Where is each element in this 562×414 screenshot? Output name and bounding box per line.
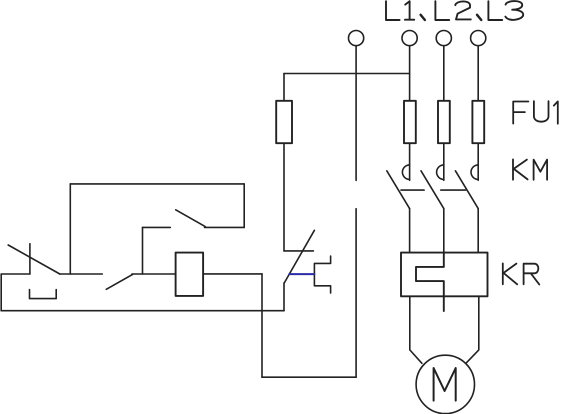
- label KM: [513, 159, 547, 179]
- label FU1: [513, 101, 558, 124]
- wire holding branch riser: [69, 184, 71, 274]
- wire pole3 KR to motor: [466, 296, 479, 363]
- wire holding branch right drop: [243, 184, 245, 228]
- KM linkage dash 2: [441, 189, 466, 191]
- wire phase L1 vertical to fuse: [409, 46, 411, 101]
- motor M1 circle: [416, 355, 474, 413]
- control fuse: [276, 101, 292, 143]
- stop button actuator bracket: [30, 290, 57, 299]
- wire control supply horizontal: [284, 73, 410, 75]
- contact KM pole 1 hook: [402, 165, 409, 180]
- contact KM pole 1 blade: [387, 171, 410, 209]
- wire bottom rail: [1, 310, 284, 312]
- KM linkage dash 1: [401, 189, 424, 191]
- wire control tap vertical lower: [355, 209, 357, 378]
- contact KM pole 3 hook: [471, 165, 478, 180]
- wire pole1 contact to KR box: [409, 209, 411, 253]
- label L1.L2.L3: [386, 1, 523, 20]
- thermal relay KR box: [401, 253, 488, 297]
- wire pole1 KR to motor: [410, 296, 422, 363]
- stop button plunger stem: [29, 244, 31, 274]
- wire pole1 fuse to contact: [409, 143, 411, 180]
- terminal L2: [436, 30, 451, 45]
- contact KM aux wire right: [205, 226, 245, 228]
- terminal L3: [471, 30, 486, 45]
- start button blade: [106, 274, 132, 289]
- KR trip hook symbol: [314, 256, 330, 293]
- contact KM pole 3 blade: [455, 171, 478, 209]
- fuse FU1 pole 2: [438, 101, 450, 143]
- wire main rail segment 3: [132, 273, 176, 275]
- wire control tap vertical upper: [355, 46, 357, 181]
- contact KR NC bar: [284, 250, 313, 252]
- contact KR NC blade: [284, 230, 314, 283]
- fuse FU1 pole 3: [472, 101, 484, 143]
- wire main rail segment 2: [60, 273, 103, 275]
- wire KR contact to bottom: [283, 283, 285, 311]
- coil KM: [176, 253, 204, 296]
- wire control branch fuse to KR contact: [283, 143, 285, 251]
- wire phase L3 vertical to fuse: [477, 46, 479, 101]
- stop button blade: [8, 245, 60, 274]
- motor letter M: [434, 368, 456, 401]
- wire coil return drop: [261, 274, 263, 377]
- terminal L1: [402, 30, 417, 45]
- wire coil output: [203, 273, 262, 275]
- wire main rail segment 1: [1, 273, 30, 275]
- wire aux to main rail drop: [142, 227, 144, 274]
- wire holding branch top: [70, 183, 244, 185]
- wire pole3 contact to KR box: [477, 209, 479, 253]
- fuse FU1 pole 1: [404, 101, 416, 143]
- wire phase L2 vertical to fuse: [443, 46, 445, 101]
- contact KM aux blade: [176, 210, 206, 227]
- wire control branch upper: [283, 74, 285, 101]
- KR heater element: [416, 253, 444, 311]
- label KR: [503, 263, 540, 284]
- KR trip link (blue): [289, 273, 314, 275]
- contact KM pole 2 hook: [437, 165, 444, 180]
- wire pole2 contact to KR box: [443, 209, 445, 253]
- contact KM aux wire left: [143, 226, 171, 228]
- wire pole3 fuse to contact: [477, 143, 479, 180]
- wire coil return bottom: [262, 376, 356, 378]
- terminal control tap: [349, 30, 364, 45]
- wire left rail: [0, 274, 2, 311]
- wire pole2 fuse to contact: [443, 143, 445, 180]
- contact KM pole 2 blade: [421, 171, 444, 209]
